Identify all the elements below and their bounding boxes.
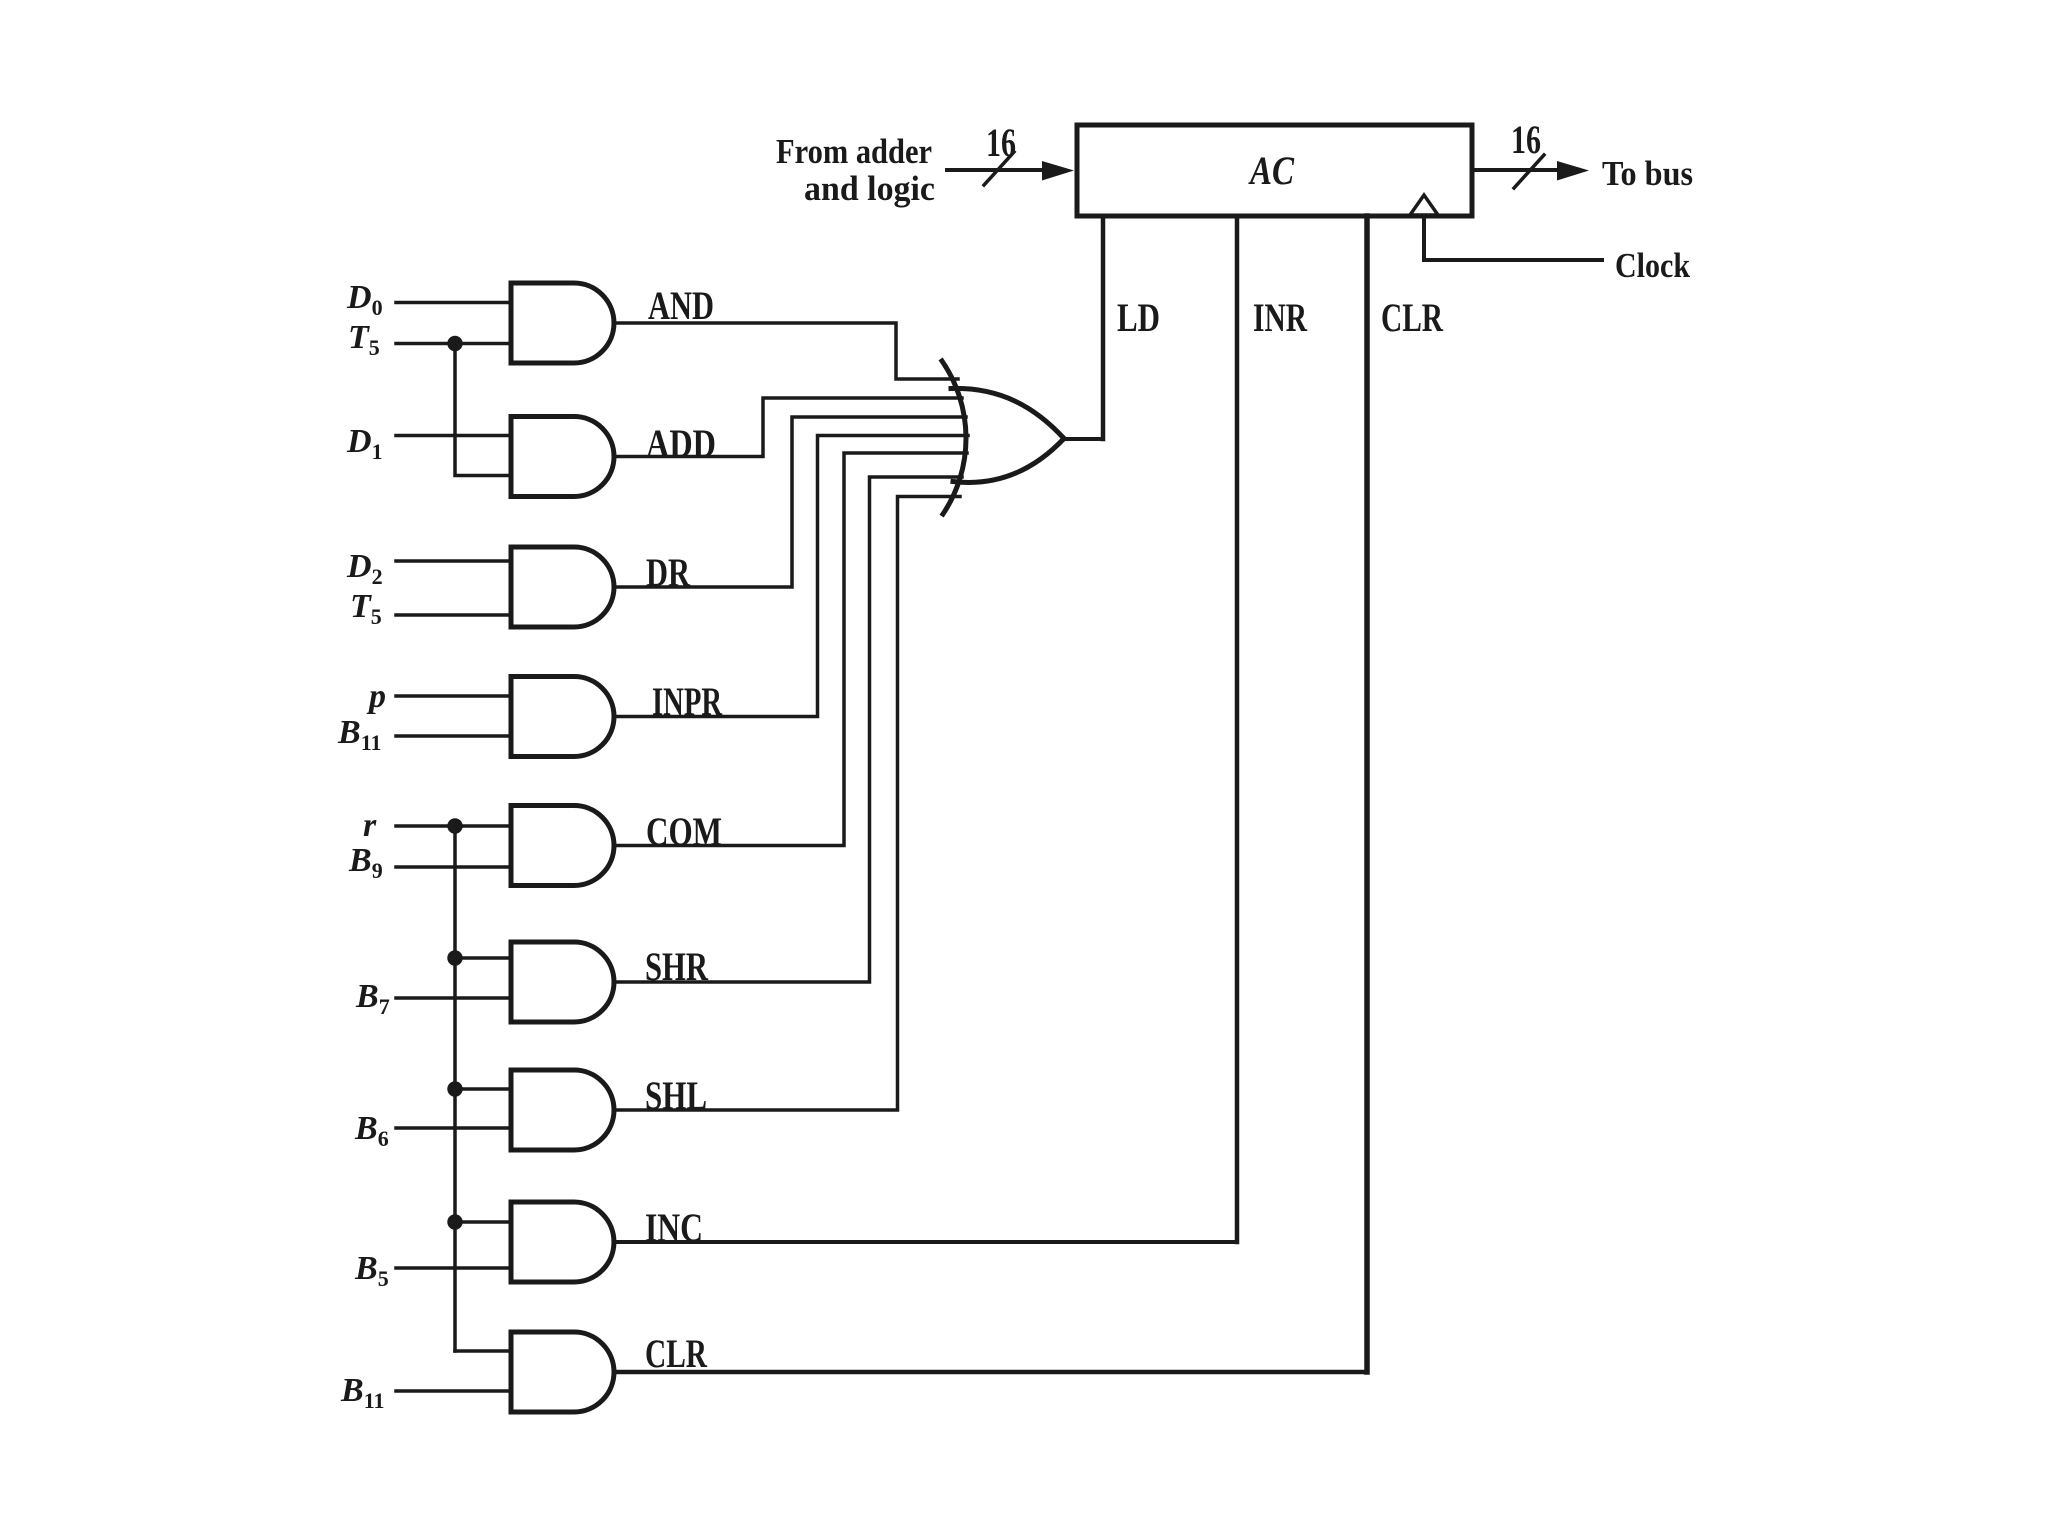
svg-text:SHR: SHR [645,944,709,989]
register AC [1077,125,1472,216]
svg-text:INR: INR [1253,295,1308,340]
wire input D2 [396,559,511,563]
svg-text:INPR: INPR [652,679,723,724]
svg-text:AC: AC [1248,148,1296,193]
wire SHR output to OR [614,477,962,982]
svg-text:D0: D0 [346,279,383,320]
junction T5 node [447,336,462,351]
wire SHL output to OR [614,497,960,1111]
or-gate U10 input arc [942,361,966,514]
svg-text:B9: B9 [348,842,383,883]
wire input B6 [396,1126,511,1130]
and-gate G2 ADD [511,417,614,497]
svg-text:16: 16 [986,120,1016,165]
wire CLR output to CLR line [614,1370,1367,1375]
svg-text:INC: INC [645,1205,703,1250]
bus slash output [1514,155,1544,188]
junction r-G8 node [447,1214,462,1229]
svg-text:D1: D1 [346,423,383,464]
wire r bus vertical [453,826,457,1351]
wire AND output to OR [614,323,958,379]
or-gate U10 top edge [951,388,1064,438]
and-gate G9 CLR [511,1332,614,1412]
svg-text:Clock: Clock [1615,246,1690,285]
svg-text:From adder: From adder [776,132,932,171]
wire CLR control line [1364,216,1370,1372]
junction r-G6 node [447,950,462,965]
svg-text:B7: B7 [355,978,390,1019]
wire input B7 [396,996,511,1000]
wire T5 vertical to G2 [455,344,511,476]
clock edge triangle [1410,195,1438,215]
wire stub r to G8 [455,1220,511,1224]
svg-text:B6: B6 [354,1110,389,1151]
wire input B5 [396,1266,511,1270]
svg-text:and logic: and logic [804,169,935,208]
wire elbow r to G9 [455,1349,511,1353]
wire input B9 [396,865,511,869]
bus slash input [984,152,1014,185]
or-gate U10 bottom edge [953,439,1064,483]
wire stub r to G7 [455,1087,511,1091]
wire INR control line [1235,216,1240,1242]
svg-text:To bus: To bus [1602,154,1693,193]
wire DR output to OR [614,417,966,587]
wire input T5 second [396,613,511,617]
svg-text:B11: B11 [340,1372,384,1413]
wire ADD output to OR [614,398,962,457]
svg-text:LD: LD [1117,295,1160,340]
wire input p [396,694,511,698]
and-gate G8 INC [511,1202,614,1282]
svg-text:ADD: ADD [646,421,716,466]
wire COM output to OR [614,453,967,846]
svg-text:B5: B5 [354,1250,389,1291]
junction r node [447,818,462,833]
svg-text:T5: T5 [350,588,382,629]
svg-text:p: p [366,678,386,715]
and-gate G4 INPR [511,677,614,757]
wire LD control line [1101,216,1106,439]
wire input B11 [396,734,511,738]
junction r-G7 node [447,1081,462,1096]
wire output bus to bus [1472,168,1558,172]
and-gate G1 AND [511,283,614,363]
wire INC output to INR [614,1240,1237,1244]
wire input D0 [396,301,511,305]
wire INPR output to OR [614,436,968,717]
arrowhead output bus [1557,161,1589,181]
arrowhead input bus [1042,161,1074,181]
svg-text:CLR: CLR [1381,295,1444,340]
wire stub r to G6 [455,956,511,960]
svg-text:COM: COM [646,809,722,854]
svg-text:B11: B11 [337,714,381,755]
wire input B11 bottom [396,1389,511,1393]
wire OR output to LD [1064,437,1103,441]
wire input T5 [396,342,511,346]
and-gate G5 COM [511,806,614,886]
wire clock [1424,216,1602,260]
svg-text:SHL: SHL [645,1073,707,1118]
and-gate G6 SHR [511,942,614,1022]
svg-text:T5: T5 [348,319,380,360]
wire input r [396,824,511,828]
wire input D1 [396,434,511,438]
and-gate G7 SHL [511,1070,614,1150]
svg-text:D2: D2 [346,548,383,589]
svg-text:r: r [363,807,377,844]
and-gate G3 DR [511,547,614,627]
svg-text:CLR: CLR [645,1331,708,1376]
wire input bus from adder [947,168,1044,172]
svg-text:16: 16 [1511,117,1541,162]
svg-text:DR: DR [646,550,691,595]
svg-text:AND: AND [648,283,714,328]
